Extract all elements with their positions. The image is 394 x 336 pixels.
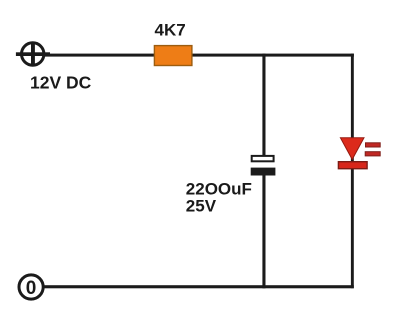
capacitor C1 top plate (hollow) (252, 156, 274, 161)
wire: top rail from resistor to right corner (191, 54, 354, 57)
svg-text:0: 0 (26, 278, 37, 299)
wire: right vertical branch (LED branch) (351, 54, 354, 289)
wire: capacitor branch upper segment (262, 54, 265, 156)
LED D1 light indicator bar (lower) (365, 152, 380, 156)
capacitor C1 bottom plate (filled) (251, 168, 276, 176)
LED D1 cathode bar (338, 162, 367, 169)
wire: top rail from + terminal to resistor (45, 54, 155, 57)
plus sign vertical bar (31, 44, 35, 65)
wire: capacitor branch lower segment (262, 175, 265, 289)
zero-volt terminal (0) circle (19, 275, 43, 299)
svg-text:12V DC: 12V DC (30, 72, 92, 92)
svg-text:4K7: 4K7 (155, 20, 186, 39)
LED D1 light indicator bar (upper) (366, 143, 381, 147)
wire: bottom rail from 0 terminal to right corner (44, 285, 354, 288)
LED D1 triangle (anode, pointing down) (340, 138, 364, 160)
positive supply terminal (+) circle (22, 43, 44, 65)
svg-text:25V: 25V (186, 196, 217, 215)
resistor R1 body (154, 46, 192, 66)
plus sign horizontal bar (16, 52, 50, 56)
